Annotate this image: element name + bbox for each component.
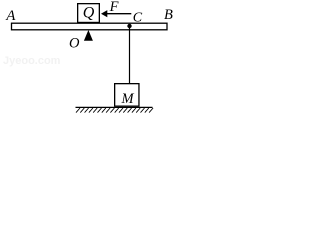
svg-text:C: C	[133, 11, 143, 26]
svg-text:M: M	[120, 91, 134, 107]
lever bar AB	[12, 23, 168, 30]
svg-text:Jyeoo.com: Jyeoo.com	[3, 55, 61, 67]
ground hatching	[76, 108, 153, 113]
svg-text:A: A	[5, 8, 16, 24]
svg-text:O: O	[69, 35, 80, 51]
svg-text:F: F	[109, 0, 119, 15]
ground line	[76, 106, 153, 108]
block M	[115, 84, 139, 107]
string from C to M	[129, 26, 131, 84]
svg-text:Q: Q	[83, 4, 95, 21]
fulcrum triangle	[84, 30, 93, 41]
node C dot	[127, 24, 131, 28]
force arrow F	[107, 13, 132, 15]
svg-text:B: B	[164, 7, 173, 23]
block Q	[78, 4, 100, 23]
